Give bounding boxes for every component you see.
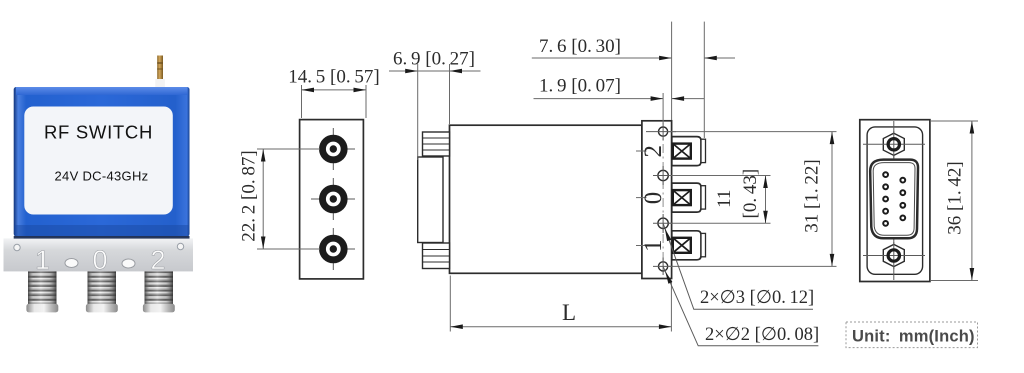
dimension 31 [1.22] (outer holes spacing) bbox=[668, 132, 837, 267]
svg-text:14. 5 [0. 57]: 14. 5 [0. 57] bbox=[288, 67, 380, 88]
front view SMA port 2 (bottom) bbox=[311, 228, 355, 270]
RF switch photo: SMA connector 1 bbox=[26, 271, 58, 312]
svg-text:2: 2 bbox=[640, 145, 667, 158]
RF switch photo: SMA connector 0 bbox=[86, 271, 118, 312]
svg-text:Unit: mm(Inch): Unit: mm(Inch) bbox=[852, 328, 975, 346]
side view mounting plate bbox=[642, 121, 672, 279]
front view SMA port 1 (top) bbox=[311, 128, 355, 170]
svg-text:7. 6 [0. 30]: 7. 6 [0. 30] bbox=[539, 36, 621, 57]
svg-text:0: 0 bbox=[92, 245, 107, 275]
plate hole upper-middle (2x03) bbox=[653, 166, 673, 185]
svg-text:1: 1 bbox=[35, 245, 50, 275]
DB9 flange rounded rect bbox=[867, 127, 923, 274]
plate hole top (2x02) bbox=[646, 123, 676, 141]
port centerline ticks bbox=[636, 150, 647, 152]
RF switch photo: SMA connector 2 bbox=[143, 271, 175, 312]
DB9 D-shaped opening bbox=[870, 160, 918, 239]
leader 2x02 [00.08] bbox=[663, 266, 819, 345]
DB9 centerline bbox=[893, 121, 895, 280]
DB9 outer body rect bbox=[860, 120, 930, 282]
side view jack screw bottom bbox=[423, 243, 450, 269]
SMA jack 0 (middle, side view) bbox=[672, 183, 706, 212]
RF switch photo: top pin bbox=[155, 56, 165, 88]
svg-text:L: L bbox=[562, 300, 576, 325]
DB9 screw top bbox=[863, 131, 925, 158]
svg-text:6. 9 [0. 27]: 6. 9 [0. 27] bbox=[393, 49, 475, 70]
svg-text:11: 11 bbox=[714, 190, 735, 208]
SMA jack 1 (bottom, side view) bbox=[672, 231, 706, 260]
side view D-sub shell (left, middle block) bbox=[418, 157, 443, 243]
dimension 36 [1.42] (DB9 height) bbox=[931, 121, 978, 281]
svg-text:2×∅2 [∅0. 08]: 2×∅2 [∅0. 08] bbox=[705, 325, 819, 345]
svg-text:31 [1. 22]: 31 [1. 22] bbox=[802, 159, 823, 232]
dimension L (body length) bbox=[450, 276, 671, 332]
dimension 22.2 [0.87] (port spacing, front view) bbox=[239, 149, 321, 249]
svg-text:1: 1 bbox=[640, 240, 667, 253]
DB9 pins: right column (4) bbox=[900, 178, 905, 221]
DB9 screw bottom bbox=[863, 242, 925, 269]
dimension 6.9 [0.27] (left protrusion) bbox=[389, 49, 481, 161]
svg-text:24V DC-43GHz: 24V DC-43GHz bbox=[55, 169, 149, 184]
RF switch photo: white label bbox=[24, 107, 173, 215]
svg-text:RF SWITCH: RF SWITCH bbox=[44, 122, 153, 143]
dimension 1.9 [0.07] (hole offset) bbox=[534, 76, 705, 125]
svg-text:[0. 43]: [0. 43] bbox=[740, 169, 761, 219]
dimension 14.5 [0.57] (front view width) bbox=[288, 67, 380, 119]
leader 2x03 [00.12] bbox=[663, 223, 814, 309]
svg-text:22. 2 [0. 87]: 22. 2 [0. 87] bbox=[239, 150, 260, 242]
plate holes centerline bbox=[662, 126, 664, 272]
unit note box bbox=[846, 322, 978, 348]
dimension 11 [0.43] (middle holes spacing) bbox=[669, 169, 771, 224]
RF switch photo: metal base plate bbox=[4, 236, 194, 275]
svg-text:36 [1. 42]: 36 [1. 42] bbox=[945, 161, 966, 234]
dimension 7.6 [0.30] (connector protrusion) bbox=[532, 22, 735, 138]
front view SMA port 0 (middle) bbox=[311, 178, 355, 220]
SMA jack 2 (top, side view) bbox=[672, 137, 706, 166]
side view jack screw top bbox=[423, 132, 450, 156]
svg-text:0: 0 bbox=[640, 192, 667, 205]
plate hole lower-middle (2x03) bbox=[653, 214, 673, 233]
svg-text:2×∅3 [∅0. 12]: 2×∅3 [∅0. 12] bbox=[700, 288, 814, 308]
svg-text:1. 9 [0. 07]: 1. 9 [0. 07] bbox=[539, 76, 621, 97]
plate hole bottom (2x02) bbox=[653, 258, 673, 276]
svg-text:2: 2 bbox=[150, 245, 165, 275]
side view body bbox=[450, 125, 642, 273]
DB9 pins: left column (5) bbox=[883, 172, 888, 226]
RF switch photo: blue body bbox=[14, 87, 190, 236]
front view body rect bbox=[300, 120, 364, 279]
